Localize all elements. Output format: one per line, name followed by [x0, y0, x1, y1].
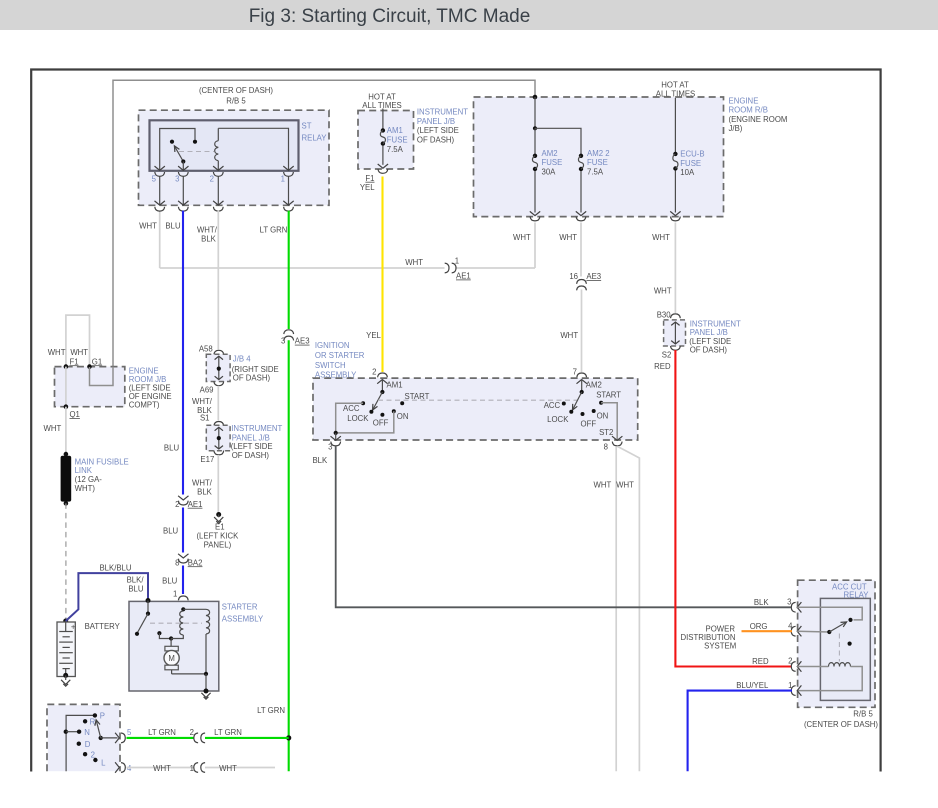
svg-text:OFF: OFF — [373, 418, 389, 427]
svg-text:B30: B30 — [657, 311, 672, 320]
svg-text:1: 1 — [173, 590, 177, 599]
junction box R/B 5 dashed box — [139, 110, 330, 205]
svg-text:BLK: BLK — [754, 598, 770, 607]
svg-text:S2: S2 — [662, 350, 672, 359]
svg-text:OF DASH): OF DASH) — [417, 135, 455, 144]
wire ORG ACC relay pin 4 to power distribution — [742, 630, 793, 632]
wire YEL fuse AM1 to ignition switch AM1 pin 2 — [381, 177, 383, 373]
ignition linkage dashed — [378, 399, 578, 401]
battery BATTERY — [57, 622, 75, 677]
svg-text:OF DASH): OF DASH) — [690, 346, 728, 355]
fuse AM2 2 7.5A — [579, 154, 583, 158]
svg-text:WHT: WHT — [219, 764, 237, 773]
svg-text:3: 3 — [787, 598, 791, 607]
starter switch contact — [147, 601, 149, 614]
svg-text:STARTER: STARTER — [222, 603, 258, 612]
svg-text:AM1: AM1 — [387, 126, 403, 135]
svg-text:(12 GA-: (12 GA- — [75, 475, 103, 484]
ignition switch 1 blade — [380, 390, 384, 394]
contact L — [93, 758, 97, 762]
wire RED S2 to ACC cut relay pin 2 — [675, 350, 791, 667]
svg-text:YEL: YEL — [360, 183, 375, 192]
svg-text:A58: A58 — [199, 345, 213, 354]
contact D — [77, 742, 81, 746]
svg-text:PANEL): PANEL) — [204, 541, 232, 550]
connector AE1 pin 2 on BLU wire — [178, 496, 188, 500]
starter mechanical linkage dashed — [150, 622, 202, 624]
wire BLK/BLU battery to starter switch — [66, 573, 148, 621]
contact P — [93, 713, 97, 717]
svg-text:COMPT): COMPT) — [129, 400, 160, 409]
svg-text:2: 2 — [190, 728, 194, 737]
svg-text:ACC: ACC — [544, 401, 561, 410]
svg-text:S1: S1 — [200, 414, 210, 423]
svg-text:Q1: Q1 — [69, 410, 79, 419]
svg-text:J/B 4: J/B 4 — [233, 355, 251, 364]
svg-text:BLK: BLK — [197, 487, 213, 496]
svg-text:ST2: ST2 — [599, 428, 613, 437]
svg-text:N: N — [84, 728, 90, 737]
svg-text:LT GRN: LT GRN — [148, 728, 176, 737]
svg-text:WHT: WHT — [616, 480, 634, 489]
svg-text:FUSE: FUSE — [680, 159, 701, 168]
svg-text:WHT/: WHT/ — [192, 397, 213, 406]
svg-text:M: M — [168, 654, 175, 663]
svg-text:5: 5 — [127, 728, 132, 737]
ignition pin 8 — [612, 436, 622, 440]
svg-text:ROOM R/B: ROOM R/B — [729, 106, 768, 115]
svg-text:2: 2 — [788, 657, 792, 666]
node solenoid to motor junction — [169, 636, 173, 640]
svg-text:ST: ST — [302, 122, 312, 131]
svg-text:BLU: BLU — [165, 221, 181, 230]
diagram frame border — [31, 70, 880, 772]
node ignition pin 3 junction — [334, 431, 338, 435]
wire WHT arch joining F1 and G1 — [66, 315, 90, 367]
starter pin 1 connector — [178, 596, 188, 600]
svg-text:P: P — [100, 712, 105, 721]
battery positive node — [63, 619, 68, 624]
ACC relay pin 3 — [791, 602, 795, 612]
svg-text:FUSE: FUSE — [542, 158, 563, 167]
svg-text:AE1: AE1 — [188, 500, 203, 509]
park neutral position switch box — [47, 704, 120, 771]
wire dashed fusible link to battery — [65, 503, 67, 619]
wire WHT/BLK ST relay pin 2 to ground E1 — [217, 211, 219, 350]
svg-text:7: 7 — [573, 368, 577, 377]
svg-text:Fig 3: Starting Circuit, TMC M: Fig 3: Starting Circuit, TMC Made — [249, 6, 531, 27]
wire LT GRN ST relay pin 1 down left side — [288, 211, 290, 329]
ACC relay linkage dashed — [838, 634, 840, 662]
svg-text:PANEL J/B: PANEL J/B — [417, 117, 455, 126]
svg-text:D: D — [85, 740, 91, 749]
switch pin 4 wire WHT — [115, 762, 119, 772]
svg-text:ACC: ACC — [343, 404, 360, 413]
wire LT GRN switch to junction — [127, 737, 194, 739]
ignition switch 2 contacts — [562, 402, 566, 406]
starter assembly box — [129, 601, 219, 691]
svg-text:AM2 2: AM2 2 — [587, 149, 610, 158]
wire WHT AM2 2 fuse to ignition AM2 pin 7 — [580, 223, 582, 277]
svg-text:WHT/: WHT/ — [192, 478, 213, 487]
ignition AM2 pin 7 connector — [577, 373, 587, 377]
svg-text:E17: E17 — [200, 455, 214, 464]
svg-text:RELAY: RELAY — [302, 134, 328, 143]
svg-text:2: 2 — [210, 175, 214, 184]
svg-text:J/B): J/B) — [729, 124, 743, 133]
svg-text:WHT: WHT — [594, 480, 612, 489]
svg-text:G1: G1 — [92, 357, 102, 366]
starter solenoid pull-in coil — [180, 611, 184, 635]
contact N — [64, 730, 68, 734]
starter solenoid hold-in coil — [183, 608, 206, 610]
svg-text:RED: RED — [654, 362, 671, 371]
wire WHT Q1 to main fusible link — [65, 407, 67, 453]
svg-text:LOCK: LOCK — [347, 414, 369, 423]
contact 2 — [83, 752, 87, 756]
ground at starter assembly — [204, 689, 209, 694]
svg-text:OR STARTER: OR STARTER — [315, 351, 365, 360]
ACC relay pin 2 — [791, 662, 795, 672]
svg-text:F1: F1 — [69, 357, 78, 366]
svg-text:WHT: WHT — [559, 233, 577, 242]
svg-text:AE3: AE3 — [295, 337, 310, 346]
connector pin 1 inline arcs — [194, 763, 198, 773]
svg-text:(LEFT SIDE: (LEFT SIDE — [689, 337, 731, 346]
node BLK/BLU at starter — [146, 598, 151, 603]
wire BLU/YEL ACC relay pin 1 down — [688, 691, 792, 772]
header title bar — [0, 0, 938, 30]
svg-text:ON: ON — [597, 411, 609, 420]
svg-text:+: + — [71, 623, 76, 632]
node motor to ground — [204, 672, 208, 676]
junction box instrument panel J/B with AM1 fuse — [358, 111, 414, 170]
motor M — [170, 639, 172, 647]
connector pin 2 inline arcs — [194, 733, 198, 743]
junction box R/B 5 ACC cut relay dashed box — [798, 580, 875, 707]
svg-text:F1: F1 — [365, 174, 374, 183]
svg-text:OF DASH): OF DASH) — [233, 374, 271, 383]
svg-text:5: 5 — [152, 175, 157, 184]
connector AE3 pin 16 inline arcs — [577, 280, 587, 284]
svg-text:OFF: OFF — [581, 420, 597, 429]
svg-text:YEL: YEL — [366, 331, 381, 340]
ignition switch 1 ACC-ON wire to pin 3 — [336, 403, 394, 433]
svg-text:START: START — [405, 392, 430, 401]
fuse ECU-B 10A — [674, 98, 676, 152]
ignition switch assembly dashed box — [313, 378, 638, 440]
svg-text:3: 3 — [328, 443, 332, 452]
svg-text:WHT): WHT) — [75, 484, 96, 493]
svg-text:WHT: WHT — [44, 424, 62, 433]
svg-text:1: 1 — [281, 175, 285, 184]
svg-text:LOCK: LOCK — [547, 415, 569, 424]
fuse AM2 30A — [533, 154, 537, 158]
ignition AM1 pin 2 connector — [378, 373, 388, 377]
ground E1 (LEFT KICK PANEL) — [216, 512, 221, 517]
svg-text:(ENGINE ROOM: (ENGINE ROOM — [729, 115, 788, 124]
svg-text:WHT: WHT — [153, 764, 171, 773]
switch pin 5 wire — [101, 737, 118, 739]
fuse AM1 7.5A — [382, 109, 384, 130]
connector BA2 pin 8 on BLU wire — [178, 554, 188, 558]
wire WHT AM2 fuse to ST relay pin 5 via connector AE1 — [159, 211, 161, 268]
svg-text:WHT: WHT — [48, 348, 66, 357]
svg-text:(LEFT SIDE: (LEFT SIDE — [417, 126, 459, 135]
svg-text:ASSEMBLY: ASSEMBLY — [222, 615, 264, 624]
svg-text:BA2: BA2 — [188, 558, 203, 567]
pin G1 — [87, 364, 92, 369]
svg-text:ORG: ORG — [750, 622, 768, 631]
svg-text:7.5A: 7.5A — [387, 145, 404, 154]
svg-text:(CENTER OF DASH): (CENTER OF DASH) — [199, 86, 273, 95]
svg-text:BLK: BLK — [312, 456, 328, 465]
ST relay coil — [217, 128, 219, 140]
ACC relay coil — [797, 666, 828, 668]
svg-text:1: 1 — [190, 764, 194, 773]
svg-text:(CENTER OF DASH): (CENTER OF DASH) — [804, 720, 878, 729]
svg-text:INSTRUMENT: INSTRUMENT — [690, 319, 741, 328]
R/B bottom pins — [530, 211, 540, 215]
ST relay pin 1 — [283, 166, 293, 170]
svg-text:INSTRUMENT: INSTRUMENT — [417, 108, 468, 117]
svg-text:LT GRN: LT GRN — [214, 728, 242, 737]
svg-text:ENGINE: ENGINE — [729, 96, 759, 105]
svg-text:2: 2 — [175, 500, 179, 509]
svg-text:(LEFT KICK: (LEFT KICK — [196, 531, 239, 540]
ST relay stationary contact — [170, 140, 174, 144]
ACC relay pin 4 — [791, 626, 795, 636]
svg-text:AM1: AM1 — [387, 381, 403, 390]
ST relay switch contact from pin 5 — [160, 129, 195, 170]
ignition pin 3 — [335, 433, 337, 440]
pin F1 — [64, 364, 69, 369]
switch common wire — [66, 715, 95, 771]
ignition switch 2 START wire to ST2 pin 8 — [601, 403, 617, 440]
svg-text:WHT: WHT — [654, 287, 672, 296]
contact R — [83, 719, 87, 723]
pin Q1 — [64, 404, 69, 409]
ignition switch 1 contacts — [361, 401, 365, 405]
svg-text:PANEL J/B: PANEL J/B — [232, 434, 270, 443]
ignition switch 2 blade — [580, 390, 584, 394]
wire WHT ECU-B fuse to instrument panel J/B B30 — [674, 223, 676, 314]
svg-text:AE3: AE3 — [586, 272, 601, 281]
wires relay pins to R/B5 box edge — [159, 177, 161, 205]
svg-text:16: 16 — [569, 272, 578, 281]
ST relay pin 5 — [155, 166, 165, 170]
wire WHT from ST2 pin 8 branch right down — [617, 446, 639, 771]
svg-text:ON: ON — [397, 412, 409, 421]
svg-text:OF DASH): OF DASH) — [232, 451, 270, 460]
svg-text:IGNITION: IGNITION — [315, 341, 350, 350]
ACC relay switch contact wire from pin 3 — [797, 607, 862, 620]
svg-text:R/B 5: R/B 5 — [853, 710, 873, 719]
svg-text:3: 3 — [175, 175, 179, 184]
ST relay pin 2 — [213, 166, 223, 170]
svg-text:BLK/: BLK/ — [127, 576, 145, 585]
node junction LT GRN with transmission switch wire — [286, 735, 291, 740]
svg-text:AM2: AM2 — [542, 149, 558, 158]
relay ACC CUT inner box — [820, 598, 870, 700]
svg-text:RED: RED — [752, 657, 769, 666]
svg-text:INSTRUMENT: INSTRUMENT — [231, 424, 282, 433]
svg-text:BLU: BLU — [163, 527, 179, 536]
ACC relay blade — [797, 630, 829, 633]
ST relay pin 3 — [178, 166, 188, 170]
connector AE3 pin 3 on LT GRN wire — [284, 330, 294, 334]
svg-text:BATTERY: BATTERY — [85, 622, 121, 631]
wire WHT from junction G1 up and across top to engine room R/B — [113, 80, 535, 385]
svg-text:10A: 10A — [680, 168, 695, 177]
svg-text:BLU/YEL: BLU/YEL — [736, 681, 769, 690]
svg-text:WHT: WHT — [405, 258, 423, 267]
svg-text:WHT: WHT — [139, 221, 157, 230]
ACC relay unused contact — [848, 642, 852, 646]
svg-text:START: START — [596, 391, 621, 400]
wire G1 hook inside J/B — [90, 367, 114, 386]
svg-text:AM2: AM2 — [586, 381, 602, 390]
svg-text:L: L — [101, 759, 106, 768]
wire F1 to Q1 inside J/B — [65, 367, 67, 407]
svg-text:E1: E1 — [215, 522, 225, 531]
svg-text:LT GRN: LT GRN — [257, 706, 285, 715]
ground at battery — [63, 673, 68, 678]
svg-text:BLU: BLU — [128, 585, 144, 594]
wire BLK ignition pin 3 to ACC cut relay pin 3 — [336, 446, 792, 607]
svg-text:4: 4 — [788, 621, 793, 630]
pin F1 of instrument panel J/B — [378, 164, 388, 168]
svg-text:BLK/BLU: BLK/BLU — [99, 564, 131, 573]
svg-text:(LEFT SIDE: (LEFT SIDE — [231, 442, 273, 451]
svg-text:BLU: BLU — [162, 576, 178, 585]
svg-text:1: 1 — [455, 257, 459, 266]
svg-text:SYSTEM: SYSTEM — [704, 641, 736, 650]
starter switch lower contact — [157, 631, 161, 635]
starter pin 1 node — [181, 607, 185, 611]
wire inside R/B to AM2 fuses — [534, 97, 536, 128]
svg-text:ALL TIMES: ALL TIMES — [362, 101, 401, 110]
node junction on R/B top edge — [533, 95, 538, 100]
svg-text:WHT: WHT — [70, 348, 88, 357]
svg-text:R/B 5: R/B 5 — [226, 97, 246, 106]
svg-text:7.5A: 7.5A — [587, 167, 604, 176]
svg-text:BLK: BLK — [201, 235, 217, 244]
svg-text:2: 2 — [372, 368, 376, 377]
svg-text:FUSE: FUSE — [387, 136, 408, 145]
junction box ENGINE ROOM J/B dashed — [55, 367, 125, 407]
svg-text:A69: A69 — [200, 385, 214, 394]
ACC relay pin 1 — [791, 686, 795, 696]
svg-text:SWITCH: SWITCH — [315, 361, 346, 370]
svg-text:WHT: WHT — [560, 331, 578, 340]
svg-text:LT GRN: LT GRN — [260, 226, 288, 235]
svg-text:FUSE: FUSE — [587, 158, 608, 167]
wire WHT from ST2 pin 8 straight down — [615, 446, 617, 771]
connector AE1 pin 1 inline arcs — [445, 263, 449, 273]
svg-text:8: 8 — [175, 558, 179, 567]
svg-text:1: 1 — [788, 681, 792, 690]
svg-text:ECU-B: ECU-B — [680, 150, 704, 159]
ST relay mechanical linkage dashed — [179, 151, 214, 153]
switch blade to P — [99, 736, 103, 740]
component MAIN FUSIBLE LINK 12GA WHT — [64, 452, 69, 457]
relay ST RELAY inner box — [150, 120, 299, 171]
svg-text:AE1: AE1 — [456, 272, 471, 281]
svg-text:WHT/: WHT/ — [197, 226, 218, 235]
ST relay switch blade — [174, 146, 183, 162]
svg-text:BLU: BLU — [164, 444, 180, 453]
svg-text:30A: 30A — [542, 167, 557, 176]
svg-text:LINK: LINK — [75, 466, 93, 475]
svg-text:WHT: WHT — [513, 233, 531, 242]
junction box ENGINE ROOM R/B dashed box — [474, 97, 724, 217]
svg-text:WHT: WHT — [652, 233, 670, 242]
svg-text:3: 3 — [281, 337, 285, 346]
wire BLU ST relay pin 3 to starter — [182, 211, 184, 495]
svg-text:8: 8 — [604, 443, 608, 452]
